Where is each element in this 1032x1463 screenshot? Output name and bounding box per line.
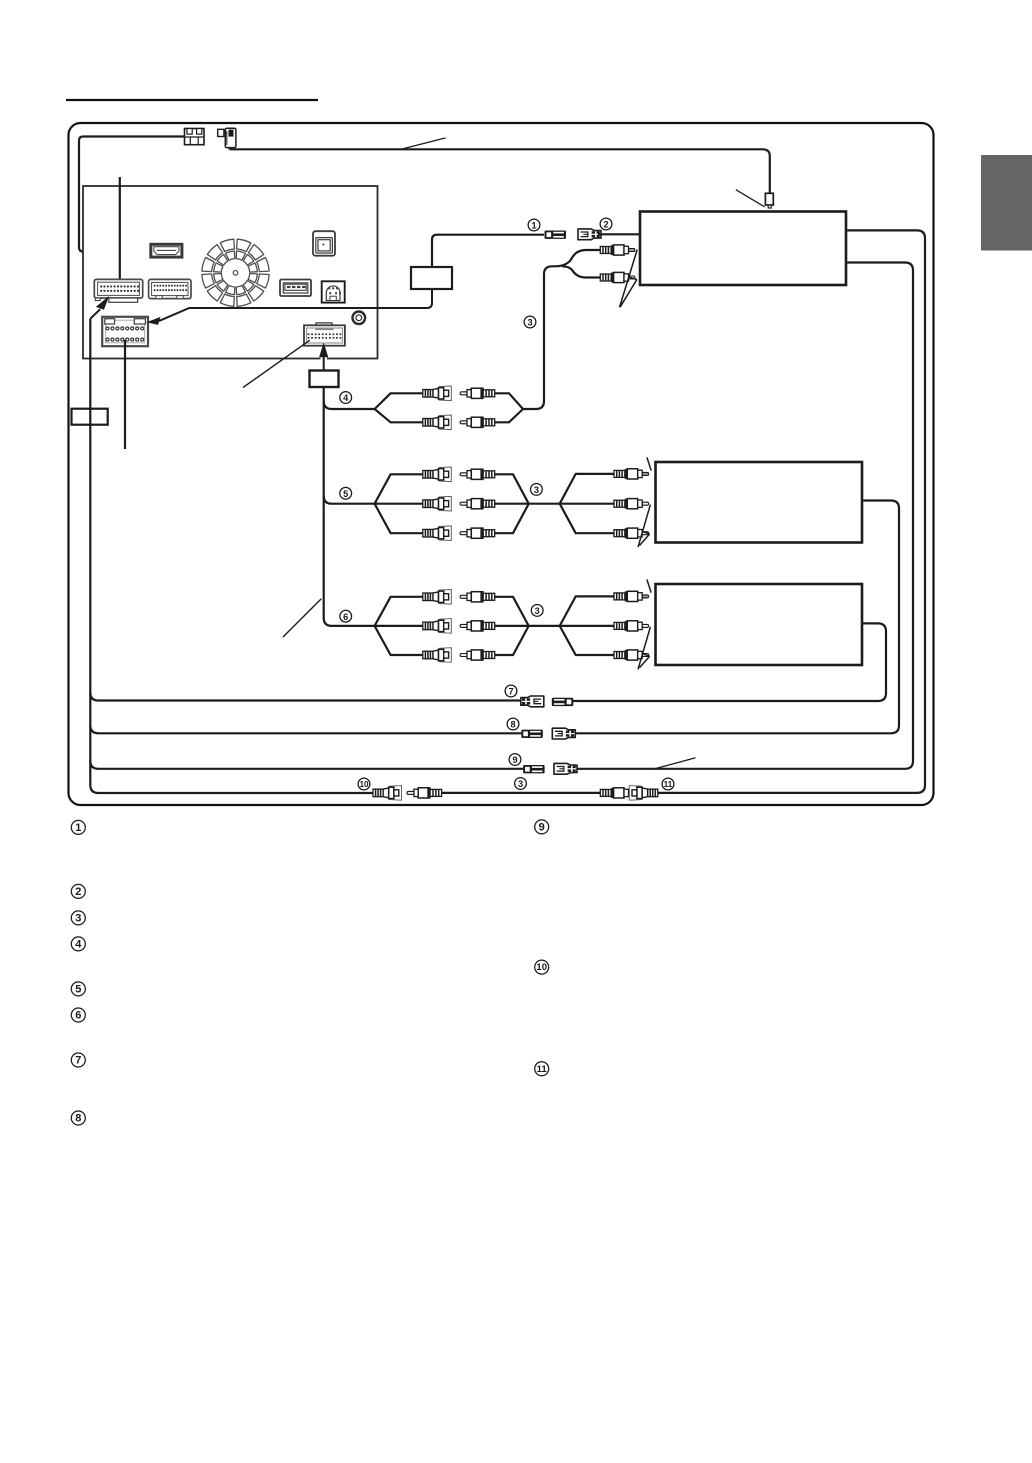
page edge gray tab [981, 155, 1032, 251]
section 5 male RCA row 2 [460, 499, 495, 509]
svg-text:7: 7 [508, 687, 513, 697]
wire from antenna connector to head unit left side [79, 137, 185, 252]
svg-text:3: 3 [75, 913, 81, 925]
legend circled 11 [535, 1062, 549, 1076]
legend circled 9 [535, 820, 549, 834]
mini-DIN connector [322, 281, 345, 302]
svg-text:10: 10 [536, 962, 547, 973]
svg-text:1: 1 [531, 221, 536, 231]
svg-text:6: 6 [75, 1010, 81, 1022]
row 8 wire to amp2 [575, 501, 899, 734]
row 7 female terminal [521, 696, 544, 707]
USB port [280, 280, 311, 297]
radio antenna connector [185, 129, 205, 145]
section 4 male RCA lower [460, 417, 495, 427]
section 5 female RCA row 1 [423, 467, 452, 482]
svg-text:6: 6 [343, 612, 348, 622]
section 5 female RCA row 2 [423, 496, 452, 511]
RCA male plug upper (to hideaway) [600, 245, 635, 255]
row 11 wire to hideaway unit upper output [658, 230, 925, 793]
svg-text:2: 2 [603, 220, 608, 230]
amplifier box 2 [656, 462, 863, 543]
svg-text:7: 7 [75, 1055, 81, 1067]
section 6 female RCA row 2 [423, 619, 452, 634]
section 4 female RCA upper [423, 386, 452, 401]
section 6 fan to amp3 [560, 596, 615, 655]
legend circled 10 [535, 960, 549, 974]
callout label box E below connector C [310, 371, 339, 388]
circled 11 [662, 778, 674, 790]
head unit rear panel [83, 186, 378, 359]
branch curve to section 4 [324, 401, 375, 409]
svg-text:11: 11 [664, 780, 673, 789]
arrow from box E to connector C [321, 357, 327, 361]
bullet terminal 2 (female) [578, 229, 601, 240]
20-pin power connector block [102, 317, 148, 346]
svg-text:8: 8 [510, 720, 515, 730]
svg-text:5: 5 [343, 489, 348, 499]
section 5 male RCA row 3 [460, 528, 495, 538]
circled 2 [600, 218, 612, 230]
row 9 wire to hideaway unit lower output [577, 263, 913, 769]
section 6 male RCA row 2 [460, 621, 495, 631]
section 4 fan-out wires [375, 393, 424, 422]
callout arrow pointing at 24-pin connector [90, 309, 100, 319]
circled 4 [340, 392, 352, 404]
svg-text:8: 8 [75, 1113, 81, 1125]
amp2 RCA male plug row 1 [614, 469, 649, 479]
circled 3 near section 5 [531, 484, 543, 496]
connection V-marks at hideaway unit [620, 250, 638, 308]
solid arrowhead pointing at 20-pin block [147, 317, 161, 325]
connection V-marks at amp2 [638, 457, 651, 547]
wire from antenna plug to hideaway unit antenna input [230, 148, 770, 194]
section 6 cables merge [495, 597, 560, 655]
bullet terminal 1 (male) [545, 231, 567, 239]
section 5 fan-out wires [375, 474, 424, 533]
left drop wire with branches to rows 7,8,9,10 [90, 319, 373, 793]
row 11 female RCA (mirrored) [629, 786, 658, 801]
pointer line on antenna wire [403, 138, 446, 149]
row 11 male RCA [600, 788, 635, 798]
amp2 RCA male plug row 2 [614, 499, 649, 509]
fan hub [233, 271, 238, 276]
row 8 male terminal [521, 730, 543, 738]
circled 7 [505, 685, 517, 697]
circled 6 [340, 610, 352, 622]
legend circled 6 [71, 1008, 85, 1022]
svg-text:11: 11 [537, 1064, 548, 1075]
circled 9 [509, 754, 521, 766]
legend circled 2 [71, 884, 85, 898]
legend circled 4 [71, 937, 85, 951]
svg-text:4: 4 [343, 393, 349, 403]
svg-text:3: 3 [535, 606, 540, 616]
section 5 fan to amp2 [560, 474, 615, 533]
section 4 right cables merging to wire 3 [495, 393, 523, 409]
row 10-11 middle wire [442, 792, 601, 794]
legend circled 5 [71, 982, 85, 996]
section 6 female RCA row 1 [423, 590, 452, 605]
amp3 RCA male plug row 1 [614, 591, 649, 601]
legend circled 3 [71, 911, 85, 925]
pointer line to main lead wire [283, 599, 321, 637]
pointer line to antenna plug [736, 190, 765, 207]
cooling fan [237, 239, 251, 251]
wire from bullet terminal 1 down into box D [432, 235, 544, 267]
row 10 male RCA [407, 788, 442, 798]
short lead below 20-pin block [124, 340, 126, 449]
row 8 female terminal [552, 728, 575, 739]
svg-text:4: 4 [75, 939, 82, 951]
section 5 female RCA row 3 [423, 526, 452, 541]
svg-text:5: 5 [75, 984, 81, 996]
legend circled 8 [71, 1111, 85, 1125]
svg-text:3: 3 [534, 485, 539, 495]
right-angle antenna plug [218, 128, 236, 147]
circled 1 [528, 219, 540, 231]
HDMI port [151, 244, 182, 257]
section 4 female RCA lower [423, 415, 452, 430]
amplifier box 3 [656, 584, 863, 665]
RCA cable pair to hideaway unit: cables [523, 250, 601, 409]
row 7 male terminal [552, 698, 574, 706]
branch curve to section 5 [324, 496, 375, 504]
section 6 fan-out wires [375, 597, 424, 655]
section 5 cables merge [495, 474, 560, 533]
16-pin connector B [149, 279, 191, 298]
svg-text:3: 3 [527, 318, 532, 328]
section 4 male RCA upper [460, 388, 495, 398]
legend circled 7 [71, 1053, 85, 1067]
lead line into 24-pin connector [119, 177, 121, 286]
amp2 RCA male plug row 3 [614, 528, 649, 538]
callout label box D (steering remote adapter) [411, 267, 452, 289]
section 6 male RCA row 1 [460, 592, 495, 602]
main lead wire from box E down with branches [324, 387, 375, 626]
circled 8 [507, 718, 519, 730]
section 5 male RCA row 1 [460, 469, 495, 479]
circled 3 (RCA cable) [524, 316, 536, 328]
RCA male plug lower (to hideaway) [600, 272, 635, 282]
svg-text:1: 1 [75, 822, 81, 834]
24-pin connector A [94, 279, 142, 302]
pointer line to 16-pin harness connector C [243, 340, 310, 387]
circled 10 [358, 778, 370, 790]
svg-text:9: 9 [539, 822, 545, 834]
section 6 male RCA row 3 [460, 650, 495, 660]
svg-text:10: 10 [359, 780, 369, 789]
circled 3 on row 10 wire [515, 778, 527, 790]
circled 3 near section 6 [531, 605, 543, 617]
row 9 female terminal [554, 763, 577, 774]
outer diagram border frame [69, 123, 934, 805]
hideaway unit box (amp1) [640, 212, 846, 286]
circled 5 [340, 487, 352, 499]
svg-text:9: 9 [512, 755, 517, 765]
16-pin harness connector C [304, 323, 345, 346]
svg-text:3: 3 [518, 779, 523, 789]
section 6 female RCA row 3 [423, 648, 452, 663]
optical digital connector [313, 231, 335, 256]
title underline [66, 99, 318, 101]
amp3 RCA male plug row 3 [614, 650, 649, 660]
row 10 female RCA [373, 786, 402, 801]
pointer line on row 9 wire [653, 758, 696, 770]
chassis screw [353, 312, 366, 325]
legend circled 1 [71, 820, 85, 834]
row 7 wire to amp3 [573, 623, 886, 701]
svg-text:2: 2 [75, 886, 81, 898]
connection V-marks at amp3 [638, 580, 651, 670]
wire from terminal 2 to hideaway unit [598, 233, 640, 235]
row 9 male terminal [523, 765, 545, 773]
callout wire from box D to 20-pin block with arrowhead [159, 289, 432, 321]
antenna plug into hideaway unit [765, 193, 773, 208]
amp3 RCA male plug row 2 [614, 621, 649, 631]
callout label box F on left drop wire [72, 409, 108, 425]
